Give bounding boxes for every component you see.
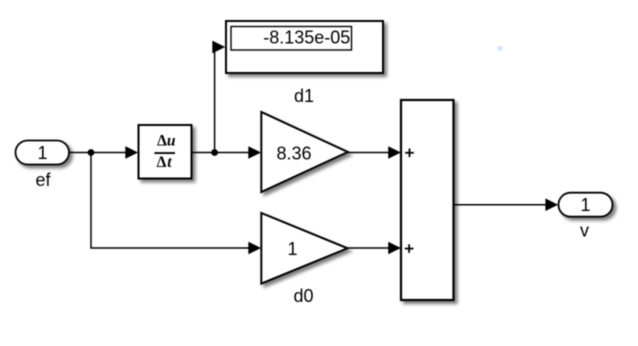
display block d1 xyxy=(226,21,383,73)
arrowhead into derivative xyxy=(125,146,138,159)
inport block ef xyxy=(16,141,70,165)
svg-text:Δt: Δt xyxy=(157,154,173,171)
wire gain 8.36 to sum xyxy=(348,152,389,154)
svg-text:1: 1 xyxy=(37,143,47,163)
svg-text:1: 1 xyxy=(287,239,297,259)
svg-text:d0: d0 xyxy=(293,286,313,306)
wire junction1 down to gain d0 xyxy=(91,153,250,249)
arrowhead into sum top xyxy=(388,146,401,159)
svg-text:Δu: Δu xyxy=(157,132,176,149)
wire inport to derivative xyxy=(70,152,127,154)
svg-text:-8.135e-05: -8.135e-05 xyxy=(263,28,350,48)
svg-text:8.36: 8.36 xyxy=(276,144,311,164)
svg-text:v: v xyxy=(580,221,589,241)
gain block d0 xyxy=(261,213,347,284)
node junction 2 xyxy=(211,149,218,156)
wire derivative to gain 8.36 xyxy=(192,152,250,154)
node junction 1 xyxy=(88,149,95,156)
svg-text:1: 1 xyxy=(580,195,590,215)
svg-text:ef: ef xyxy=(35,170,51,190)
svg-text:d1: d1 xyxy=(294,86,314,106)
arrowhead into display xyxy=(212,41,225,54)
derivative block xyxy=(139,125,192,179)
arrowhead into gain 8.36 xyxy=(248,146,261,159)
wire junction2 up to display xyxy=(214,47,216,153)
sum block xyxy=(401,100,454,300)
arrowhead into sum bottom xyxy=(388,242,401,255)
blue speck annotation xyxy=(498,46,503,50)
wire gain d0 to sum xyxy=(348,247,390,249)
outport block v xyxy=(559,193,613,217)
arrowhead into gain d0 xyxy=(248,242,261,255)
gain block 8.36 xyxy=(261,112,348,192)
arrowhead into outport xyxy=(545,198,558,211)
wire sum to outport xyxy=(454,204,547,206)
